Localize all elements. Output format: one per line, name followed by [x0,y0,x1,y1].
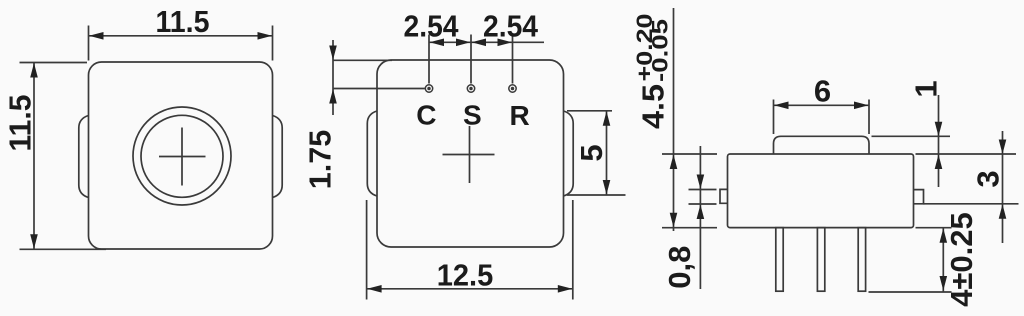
front view center cross [159,128,206,186]
dimension 11.5 top: extension lines [89,26,273,61]
pin hole R [509,85,516,92]
svg-text:11.5: 11.5 [156,4,210,39]
side view body [728,154,914,228]
pin hole C [425,85,432,92]
side view left ear [720,189,728,203]
front view body [89,62,273,249]
dimension 5 extension lines [567,111,626,195]
top view center cross [443,126,495,183]
front view right ear [273,116,283,198]
pin hole S [467,85,474,92]
dimension 1 dimension line [935,95,943,187]
dimension 12.5 dimension line [367,285,573,293]
pin 1 [776,228,783,292]
svg-text:R: R [509,100,529,131]
svg-text:5: 5 [574,144,609,161]
dimension 1.75 dimension line [329,40,337,115]
dimension 0.8 dimension line [697,146,705,289]
svg-text:0,8: 0,8 [662,246,697,289]
side view top cap [774,136,870,154]
dimension 4.5 extension lines [662,154,717,228]
svg-text:-0.05: -0.05 [648,19,673,82]
dimension 3 extension line [924,203,1019,205]
svg-text:2.54: 2.54 [404,9,460,44]
svg-text:C: C [416,100,436,131]
side view right ear [914,190,924,204]
dimension 2.54 dimension line [429,39,544,47]
dimension 3 dimension line [999,131,1007,243]
svg-text:6: 6 [814,74,831,109]
dimension 11.5 left: extension lines [20,63,107,250]
front view outer circle [133,107,231,205]
dimension 4.5 dimension line [670,8,678,231]
svg-text:4±0.25: 4±0.25 [944,212,979,307]
dimension 2.54 extension lines [429,35,513,84]
pin 2 [817,228,824,292]
dimension 12.5 extension lines [367,200,573,300]
svg-text:3: 3 [971,170,1006,187]
dimension 0.8 extension lines [689,190,717,205]
svg-text:S: S [463,100,482,131]
dimension 6 extension lines [774,100,870,135]
svg-text:4.5: 4.5 [636,84,671,129]
label 4.5 +0.20 -0.05 [632,14,673,130]
front view inner circle [141,115,223,197]
top view left ear [367,111,377,196]
dimension 4+-0.25 extension lines [869,228,952,292]
svg-text:12.5: 12.5 [437,258,494,293]
dimension 11.5 top: dimension line [89,32,273,40]
top view right ear [564,111,574,196]
svg-text:2.54: 2.54 [483,9,539,44]
svg-text:1.75: 1.75 [303,130,338,190]
svg-text:11.5: 11.5 [3,95,38,152]
dimension 5 dimension line [603,111,611,195]
top view body [377,60,564,247]
pin 3 [858,228,865,292]
front view left ear [79,116,89,198]
dimension 6 dimension line [774,102,870,110]
dimension 4+-0.25 dimension line [940,228,948,292]
dimension 11.5 left: dimension line [30,63,38,250]
dimension 1 extension lines [872,136,1017,154]
svg-text:1: 1 [909,80,944,97]
dimension 1.75 extension lines [333,60,425,88]
